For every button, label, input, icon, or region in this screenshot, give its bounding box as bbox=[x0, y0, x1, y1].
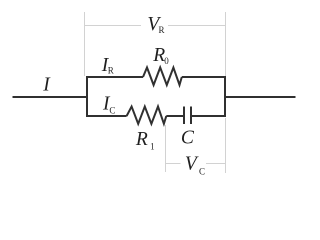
svg-text:C: C bbox=[199, 166, 205, 176]
svg-text:R: R bbox=[135, 129, 148, 150]
resistor R1 bbox=[127, 107, 167, 124]
svg-text:1: 1 bbox=[150, 142, 155, 152]
wire: bottom branch right segment bbox=[190, 115, 226, 117]
wire: left lead carrying current I bbox=[13, 96, 89, 98]
wire: top branch left segment bbox=[86, 76, 143, 78]
node B: right junction vertical bbox=[224, 76, 226, 117]
node A: left junction vertical bbox=[86, 76, 88, 117]
wire: right lead bbox=[224, 96, 296, 98]
wire: bottom branch between R1 and C bbox=[166, 115, 184, 117]
dimension line V_R horizontal bbox=[85, 25, 226, 27]
wire: bottom branch left segment bbox=[86, 115, 127, 117]
svg-text:C: C bbox=[109, 105, 115, 115]
dimension extension tick left of V_R bbox=[84, 12, 86, 76]
wire: top branch right segment bbox=[182, 76, 226, 78]
svg-text:I: I bbox=[42, 75, 51, 96]
svg-text:C: C bbox=[181, 127, 195, 148]
resistor R0 bbox=[143, 68, 182, 86]
capacitor C left plate bbox=[183, 107, 185, 125]
dimension line V_C horizontal bbox=[166, 163, 226, 165]
dimension extension tick left of V_C bbox=[165, 125, 167, 172]
svg-text:R: R bbox=[108, 66, 114, 76]
dimension extension tick right of V_R bbox=[225, 12, 227, 76]
capacitor C right plate bbox=[190, 107, 192, 125]
dimension extension tick right of V_C bbox=[225, 118, 227, 173]
svg-text:R: R bbox=[159, 25, 165, 35]
svg-text:V: V bbox=[185, 154, 199, 175]
svg-text:0: 0 bbox=[164, 56, 169, 66]
